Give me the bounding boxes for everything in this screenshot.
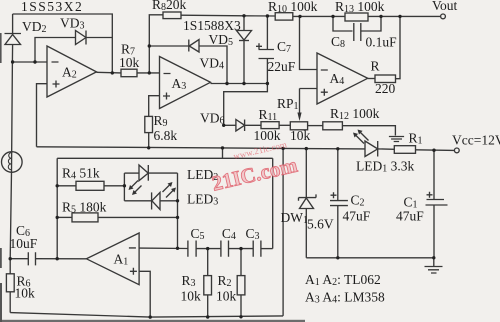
svg-text:R: R <box>371 59 380 74</box>
svg-text:0.1uF: 0.1uF <box>366 35 398 50</box>
svg-text:6.8k: 6.8k <box>154 128 178 143</box>
svg-text:R5 180k: R5 180k <box>62 200 107 216</box>
svg-text:47uF: 47uF <box>396 209 424 224</box>
svg-text:10k: 10k <box>119 55 140 70</box>
svg-text:Vout: Vout <box>432 0 458 13</box>
svg-text:5.6V: 5.6V <box>307 217 334 232</box>
svg-text:22uF: 22uF <box>268 59 296 74</box>
svg-text:Vcc=12V: Vcc=12V <box>452 133 500 148</box>
svg-text:R820k: R820k <box>152 0 187 13</box>
svg-text:1SS53X2: 1SS53X2 <box>21 0 83 14</box>
svg-text:R4 51k: R4 51k <box>62 166 100 182</box>
svg-text:R12 100k: R12 100k <box>330 106 380 122</box>
svg-text:R13 100k: R13 100k <box>335 0 385 15</box>
svg-text:R10 100k: R10 100k <box>268 0 318 15</box>
svg-text:10k: 10k <box>216 289 237 304</box>
svg-text:10k: 10k <box>290 128 311 143</box>
svg-text:10k: 10k <box>15 286 36 301</box>
svg-text:47uF: 47uF <box>343 209 371 224</box>
svg-text:10uF: 10uF <box>10 236 38 251</box>
svg-text:220: 220 <box>375 81 396 96</box>
svg-text:10k: 10k <box>181 289 202 304</box>
svg-text:1S1588X3: 1S1588X3 <box>183 18 241 33</box>
